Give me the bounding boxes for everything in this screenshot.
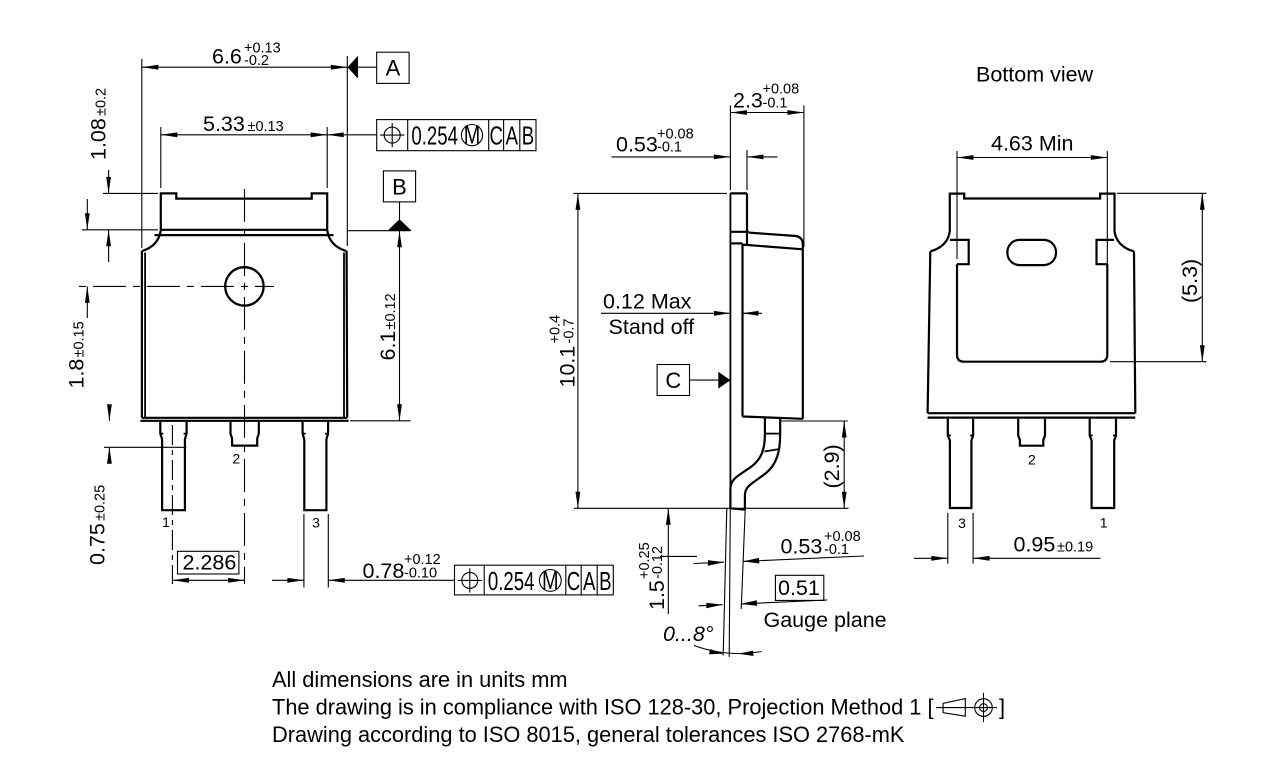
front view pin 1 shoulder ticks [160, 433, 186, 435]
front view flange lower edge [155, 234, 334, 236]
svg-text:1.8: 1.8 [65, 359, 89, 389]
svg-text:±0.13: ±0.13 [248, 119, 284, 135]
dimension (2.9) [779, 421, 847, 508]
svg-text:M: M [464, 120, 481, 149]
svg-text:B: B [599, 567, 611, 596]
svg-text:-0.1: -0.1 [824, 542, 849, 558]
svg-text:-0.7: -0.7 [562, 319, 578, 344]
bottom view pin labels [958, 452, 1108, 532]
bottom view left corner notch [950, 240, 969, 264]
svg-text:1: 1 [1100, 515, 1108, 531]
side view mold collar top line [730, 231, 749, 233]
projection method symbol [936, 693, 1005, 722]
angle 0...8 degrees [663, 622, 762, 656]
bottom view pin 1 shoulder ticks [1090, 435, 1116, 437]
front view body bottom second edge [140, 420, 348, 422]
svg-text:-0.10: -0.10 [404, 566, 437, 582]
svg-text:B: B [392, 174, 407, 199]
svg-text:2: 2 [232, 451, 240, 467]
svg-text:1.08: 1.08 [87, 118, 111, 160]
feature control frame lower (position 0.254 M C A B) [455, 565, 614, 595]
bottom view right flare [1115, 231, 1135, 251]
dimension 0.12 Max stand off [601, 290, 762, 340]
svg-text:3: 3 [958, 515, 966, 531]
side view lead tip vertical reference [729, 508, 730, 657]
datum A frame [377, 52, 409, 83]
svg-text:0.78: 0.78 [363, 559, 405, 583]
side view lead tip tilted right edge [741, 510, 745, 609]
front view hole horizontal centerline [79, 285, 274, 287]
bottom view pin 3 shoulder ticks [948, 435, 973, 437]
svg-text:(5.3): (5.3) [1178, 259, 1202, 303]
svg-text:1: 1 [162, 514, 170, 530]
svg-text:1.5: 1.5 [645, 580, 669, 610]
front view body left edge [141, 251, 143, 418]
svg-text:Gauge plane: Gauge plane [764, 608, 887, 632]
svg-text:0.254: 0.254 [488, 567, 535, 596]
svg-text:6.6: 6.6 [212, 45, 242, 69]
svg-text:A: A [583, 567, 596, 596]
dimension 0.95 ±0.19 [914, 513, 1101, 564]
dimension (5.3) [1110, 193, 1207, 361]
svg-text:0.95: 0.95 [1014, 533, 1056, 557]
front view tab outline [161, 193, 327, 230]
front view pin1 centerline [171, 425, 173, 584]
svg-text:2: 2 [1028, 452, 1036, 468]
bottom view exposed pad outline [957, 264, 1107, 362]
svg-text:C: C [665, 368, 681, 393]
svg-text:0...8°: 0...8° [663, 622, 714, 646]
front view body right draft line [343, 253, 345, 418]
svg-text:±0.12: ±0.12 [383, 293, 399, 329]
bottom view right side edge [1134, 251, 1135, 413]
svg-text:0.53: 0.53 [616, 133, 658, 157]
dimension 0.78 +0.12/-0.10 with leader to lower FCF [272, 514, 455, 588]
front view flange top edge (datum B surface) [161, 229, 327, 231]
dimension 0.53 +0.08/-0.1 (lead thickness at gauge) [694, 529, 864, 566]
side view body bottom edge [743, 417, 803, 419]
svg-text:5.33: 5.33 [203, 112, 245, 136]
dimension 2.286 (basic, boxed) [172, 551, 244, 583]
dimension 1.5 +0.25/-0.12 [637, 508, 697, 614]
front view pin 3 shoulder ticks [303, 433, 329, 435]
side view lead bend line 1 [765, 433, 780, 435]
side view lead inner curve [730, 434, 765, 509]
svg-text:All dimensions are in units mm: All dimensions are in units mm [272, 667, 568, 692]
svg-text:±0.19: ±0.19 [1057, 540, 1093, 556]
front view mounting hole [225, 267, 263, 305]
datum C frame and triangle [657, 365, 730, 396]
svg-text:0.254: 0.254 [411, 121, 458, 150]
dimension 6.6 +0.13/-0.2 with datum A [142, 41, 409, 249]
svg-text:-0.1: -0.1 [657, 140, 682, 156]
svg-text:0.51: 0.51 [778, 576, 820, 600]
side view tab back edge / datum plane line [729, 193, 731, 508]
svg-text:4.63 Min: 4.63 Min [991, 132, 1073, 156]
svg-text:M: M [542, 565, 559, 594]
front view pin 1 [160, 422, 186, 510]
side view lead outer curve [745, 434, 780, 510]
svg-text:C: C [489, 121, 502, 150]
side view mold front face [741, 245, 743, 417]
svg-text:0.12 Max: 0.12 Max [603, 290, 692, 314]
svg-text:B: B [522, 121, 534, 150]
dimension 1.8 ±0.15 [65, 199, 159, 389]
bottom view outer outline top [950, 194, 1115, 232]
svg-text:A: A [506, 121, 519, 150]
svg-text:Drawing according to ISO 8015,: Drawing according to ISO 8015, general t… [272, 722, 905, 747]
svg-text:]: ] [999, 695, 1005, 720]
svg-text:C: C [567, 567, 580, 596]
side view lead stub right [779, 418, 781, 434]
svg-text:0.53: 0.53 [781, 535, 823, 559]
front view right flare curve [327, 230, 346, 251]
datum B frame and triangle [347, 171, 416, 231]
front view pin labels 1 2 3 [162, 451, 320, 531]
side view mold collar lower line [730, 242, 742, 244]
bottom view pin 1 [1090, 419, 1116, 508]
front view pin 2 [231, 422, 259, 446]
bottom view pin 3 [948, 419, 973, 508]
dimension 10.1 +0.4/-0.7 [548, 193, 728, 508]
svg-text:±0.25: ±0.25 [93, 485, 109, 521]
svg-text:-0.1: -0.1 [763, 96, 788, 112]
svg-text:The drawing is in compliance w: The drawing is in compliance with ISO 12… [272, 695, 934, 720]
svg-text:Stand off: Stand off [609, 315, 695, 339]
side view tab top cap [730, 192, 747, 194]
svg-text:-0.12: -0.12 [650, 546, 666, 579]
front view left flare curve [142, 230, 161, 251]
bottom view pin 2 [1018, 419, 1045, 446]
svg-text:2.3: 2.3 [733, 89, 763, 113]
svg-text:±0.15: ±0.15 [72, 321, 88, 357]
side view tab right edge [746, 193, 748, 244]
side view lead stub left [764, 417, 766, 433]
bottom view right corner notch [1097, 240, 1115, 264]
svg-text:A: A [386, 56, 401, 81]
seating plane line [574, 507, 849, 509]
dimension 2.3 +0.08/-0.1 [730, 82, 804, 248]
dimension 1.08 ±0.2 [87, 88, 159, 262]
side view lead tip cap [730, 508, 745, 509]
svg-text:6.1: 6.1 [376, 331, 400, 361]
svg-text:3: 3 [312, 515, 320, 531]
side view flange upper slant with corner [749, 233, 803, 419]
bottom view bottom second edge [928, 417, 1136, 419]
front view body bottom edge [142, 417, 347, 419]
svg-text:2.286: 2.286 [183, 551, 237, 575]
front view vertical centerline [244, 186, 246, 585]
front view body right edge [346, 251, 349, 418]
svg-text:0.75: 0.75 [86, 523, 110, 565]
svg-text:Bottom view: Bottom view [976, 63, 1094, 87]
bottom view slot [1007, 240, 1056, 265]
bottom view left side edge [928, 251, 931, 413]
bottom view left flare [930, 231, 950, 251]
svg-text:-0.2: -0.2 [244, 53, 269, 69]
dimension 0.53 +0.08/-0.1 (tab thickness) [612, 127, 778, 191]
dimension 4.63 Min [957, 132, 1107, 266]
side view lead bend line 2 [765, 449, 780, 452]
front view pin 3 [303, 422, 329, 510]
dimension 0.75 ±0.25 [86, 404, 187, 565]
dimension 5.33 ±0.13 [161, 112, 344, 188]
svg-text:10.1: 10.1 [556, 346, 580, 388]
svg-text:±0.2: ±0.2 [94, 88, 110, 116]
dimension 6.1 ±0.12 [350, 231, 411, 421]
front view body left draft line [144, 253, 146, 418]
feature control frame upper (position 0.254 M C A B) [327, 120, 536, 151]
bottom view bottom edge [928, 412, 1136, 414]
side view lead tip tilted left edge [723, 508, 727, 655]
side view flange lower slant [743, 245, 803, 250]
datum A solid triangle [348, 56, 359, 79]
svg-text:(2.9): (2.9) [820, 444, 844, 488]
dimension 0.51 gauge plane (boxed) [699, 575, 887, 632]
